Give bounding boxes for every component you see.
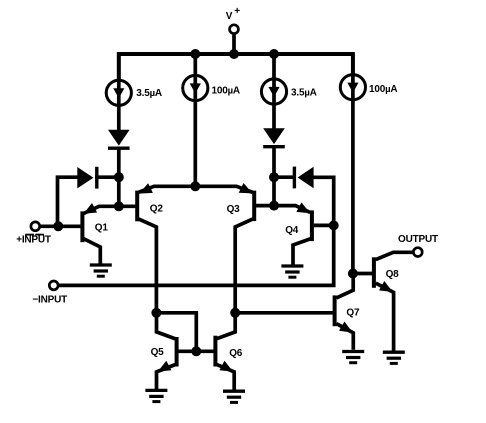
wire: Q8 collector to output [376, 252, 414, 259]
wire: D2 anode loop to +input node [58, 177, 79, 226]
wire: rail through current source I1 to diode D1 [117, 54, 121, 131]
wire: Q5 emitter to ground [157, 365, 176, 390]
svg-text:−INPUT: −INPUT [32, 294, 67, 305]
svg-text:OUTPUT: OUTPUT [398, 234, 438, 245]
wire: Q3 emitter from common node [195, 186, 252, 192]
transistor Q1 (PNP) [80, 211, 84, 242]
node: Q8 base junction [348, 269, 358, 279]
svg-text:+: + [234, 6, 240, 17]
wire: mirror output to Q7 base [235, 311, 333, 315]
wire: rail to current source I2 [193, 54, 197, 88]
current source I4 100uA [340, 75, 365, 100]
wire: Q4 collector to ground [293, 239, 311, 267]
transistor Q5 (NPN) [175, 337, 179, 367]
wire: Q4 base to -input line [314, 224, 334, 228]
svg-text:3.5µA: 3.5µA [291, 88, 317, 99]
svg-text:100µA: 100µA [369, 84, 397, 95]
wire: Q3 base to node [256, 204, 274, 208]
svg-text:Q7: Q7 [346, 307, 360, 318]
wire: Q4 emitter [274, 206, 310, 213]
transistor Q2 (PNP) [135, 191, 139, 222]
svg-text:100µA: 100µA [212, 85, 240, 96]
node: D3-D4 junction [269, 172, 279, 182]
terminal +INPUT [31, 222, 40, 231]
wire: -INPUT run to Q4 base node [58, 225, 334, 285]
current source I2 100uA [183, 75, 208, 100]
node: diff pair emitter common [190, 181, 200, 191]
svg-text:Q8: Q8 [386, 269, 400, 280]
ground at Q1 collector [90, 263, 112, 266]
wire: D2 cathode to D1 chain [95, 175, 119, 179]
terminal V+ [232, 34, 236, 56]
svg-text:+INPUT: +INPUT [16, 235, 51, 246]
wire: rail through current source I3 to diode D3 [272, 54, 276, 129]
svg-text:3.5µA: 3.5µA [136, 88, 162, 99]
transistor Q4 (PNP) [310, 210, 314, 241]
wire: D4 cathode to D3 chain [274, 175, 296, 179]
transistor Q8 (NPN) [372, 257, 376, 288]
wire: +INPUT to Q1 base [40, 224, 81, 228]
node: Q1 emitter / Q2 base node [114, 201, 124, 211]
wire: Q2 base [119, 204, 136, 208]
wire: Q8 base [353, 272, 372, 276]
svg-text:Q1: Q1 [95, 222, 109, 233]
wire: V+ supply rail [119, 54, 353, 81]
node: Q4 emitter / Q3 base node [269, 201, 279, 211]
wire: Q1 collector to ground [84, 239, 101, 266]
node: Q3/Q6 collector junction [230, 308, 240, 318]
wire: Q7 collector to Q8 base node [336, 274, 353, 298]
node: rail junction at 3.5uA source 2 [269, 49, 279, 59]
svg-text:Q6: Q6 [229, 348, 243, 359]
node: Q5 Q6 base junction [191, 346, 201, 356]
wire: Q5 base [178, 349, 196, 353]
diode D4 [293, 167, 296, 189]
ground at Q7 emitter [342, 350, 364, 353]
wire: D4 anode to Q4 base line [312, 177, 334, 225]
ground at Q8 emitter [383, 351, 405, 354]
wire: Q6 emitter to ground [217, 365, 234, 391]
wire: D1 cathode down to Q2 base node [117, 149, 121, 207]
wire: Q8 emitter to ground [376, 283, 394, 351]
node: Q4 base junction [329, 220, 339, 230]
ground at Q4 collector [281, 264, 303, 267]
node: Q2/Q5 collector junction [151, 308, 161, 318]
transistor Q6 (NPN) [213, 336, 217, 367]
diode D2 [77, 167, 93, 188]
svg-text:V: V [226, 11, 233, 22]
svg-text:Q3: Q3 [227, 204, 241, 215]
diode D1 [108, 130, 130, 146]
diode D3 [263, 128, 285, 144]
wire: rail through current source I4 to Q8 base node [351, 54, 355, 274]
ground at Q6 emitter [223, 390, 245, 393]
terminal OUTPUT [413, 248, 422, 257]
wire: Q1 emitter [84, 206, 119, 213]
wire: Q2 collector down to mirror [139, 219, 157, 313]
wire: Q6 base [196, 349, 213, 353]
wire: current source I2 to diff pair emitters [193, 88, 197, 186]
node: D1-D2 junction [114, 172, 124, 182]
wire: Q7 emitter to ground [336, 324, 353, 350]
node: rail junction at 100uA source 1 [190, 49, 200, 59]
current source I1 3.5uA [106, 80, 131, 105]
transistor Q3 (PNP) [252, 191, 256, 222]
ground at Q5 emitter [145, 389, 167, 392]
svg-text:Q5: Q5 [151, 347, 165, 358]
wire: Q3 collector down to mirror [235, 219, 253, 313]
current source I3 3.5uA [261, 79, 286, 104]
wire: Q6 collector [217, 313, 235, 339]
node: rail junction at V+ [229, 49, 239, 59]
wire: Q5 collector [157, 313, 176, 339]
node: +input junction [53, 221, 63, 231]
transistor Q7 (NPN) [333, 295, 337, 326]
svg-text:Q4: Q4 [285, 225, 299, 236]
wire: D3 cathode down to Q3 base node [272, 147, 276, 206]
terminal -INPUT [49, 281, 58, 290]
svg-text:Q2: Q2 [150, 203, 164, 214]
wire: mirror diode link to Q5 Q6 bases [156, 313, 196, 352]
wire: Q2 emitter to common node [139, 186, 196, 192]
